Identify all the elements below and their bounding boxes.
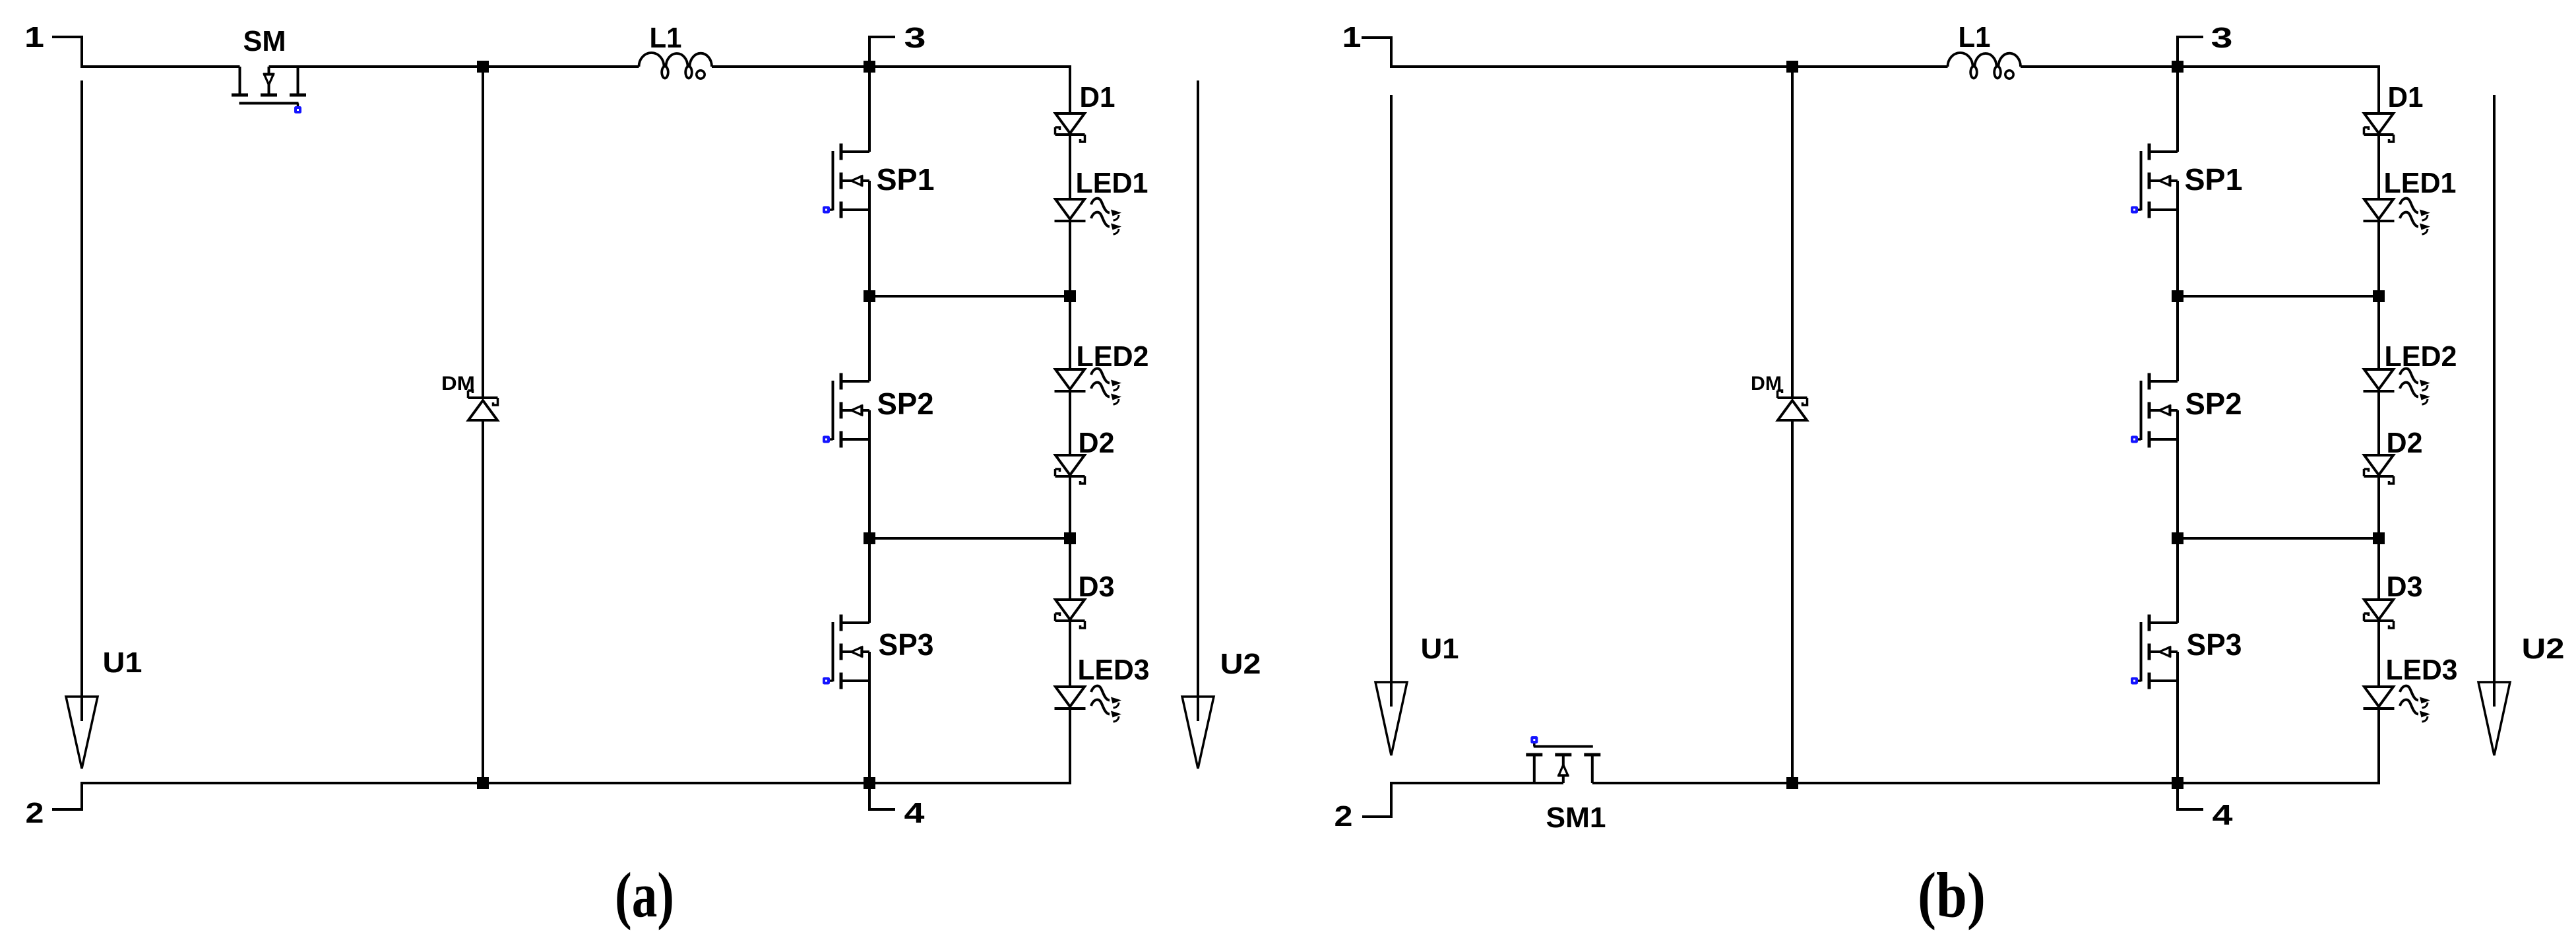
svg-text:(a): (a)	[615, 860, 674, 931]
svg-text:L1: L1	[1959, 21, 1991, 53]
svg-text:(b): (b)	[1918, 860, 1986, 931]
svg-text:D1: D1	[2388, 81, 2424, 113]
svg-text:1: 1	[24, 21, 44, 53]
svg-text:4: 4	[2213, 799, 2234, 831]
svg-text:3: 3	[2211, 22, 2233, 54]
svg-text:4: 4	[904, 797, 926, 829]
svg-text:SM: SM	[243, 25, 286, 57]
svg-text:SP3: SP3	[879, 627, 934, 662]
svg-text:2: 2	[1335, 800, 1353, 833]
svg-text:DM: DM	[1751, 373, 1782, 394]
svg-text:SP3: SP3	[2187, 627, 2242, 662]
svg-text:U1: U1	[1421, 633, 1459, 665]
svg-text:DM: DM	[441, 373, 475, 394]
svg-text:D1: D1	[1080, 81, 1115, 113]
svg-text:L1: L1	[650, 22, 682, 54]
svg-text:LED3: LED3	[2386, 654, 2458, 686]
svg-text:D3: D3	[1079, 571, 1115, 603]
svg-text:LED3: LED3	[1078, 654, 1150, 686]
svg-text:LED2: LED2	[2385, 340, 2457, 373]
svg-text:U2: U2	[2522, 633, 2565, 665]
svg-text:U2: U2	[1220, 648, 1261, 680]
svg-text:SP2: SP2	[877, 387, 934, 421]
svg-text:SP1: SP1	[2185, 162, 2243, 197]
svg-text:D2: D2	[2387, 427, 2423, 459]
svg-text:LED1: LED1	[2384, 167, 2457, 199]
svg-text:SM1: SM1	[1546, 802, 1606, 834]
svg-text:LED2: LED2	[1077, 340, 1149, 373]
svg-text:LED1: LED1	[1076, 167, 1148, 199]
svg-text:SP2: SP2	[2185, 387, 2242, 421]
svg-text:SP1: SP1	[877, 162, 935, 197]
svg-text:D2: D2	[1079, 427, 1115, 459]
svg-text:1: 1	[1342, 21, 1362, 53]
svg-text:2: 2	[26, 797, 44, 829]
svg-text:3: 3	[904, 22, 926, 54]
svg-text:U1: U1	[103, 646, 142, 679]
svg-text:D3: D3	[2387, 571, 2423, 603]
